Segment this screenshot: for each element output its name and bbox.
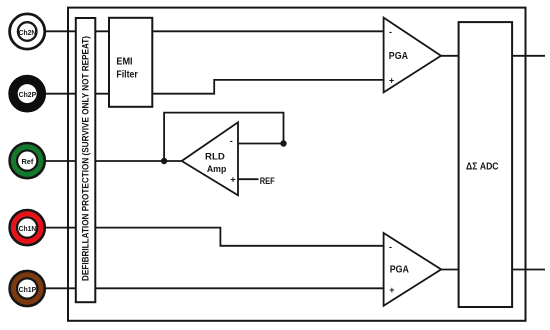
svg-text:Ch1P: Ch1P bbox=[19, 285, 37, 294]
op-amp RLD Amp (points left) bbox=[182, 122, 238, 195]
wire RLD non-inverting input to REF bbox=[238, 178, 259, 180]
svg-text:REF: REF bbox=[260, 176, 276, 186]
node: RLD output junction dot bbox=[161, 158, 167, 164]
wire Ch2N input: connector to EMI filter to PGA1 minus bbox=[44, 30, 384, 32]
svg-text:ΔΣ ADC: ΔΣ ADC bbox=[466, 161, 499, 172]
connector Ch1P (brown) bbox=[10, 271, 45, 306]
svg-text:PGA: PGA bbox=[389, 51, 408, 62]
svg-text:-: - bbox=[230, 136, 233, 146]
svg-text:Ch2P: Ch2P bbox=[19, 90, 37, 99]
svg-text:Filter: Filter bbox=[116, 70, 137, 81]
wire Ref: connector to RLD amp output bbox=[44, 160, 182, 162]
svg-text:EMI: EMI bbox=[116, 57, 132, 68]
wire ADC output top bbox=[512, 55, 545, 57]
svg-text:+: + bbox=[230, 175, 235, 185]
wire ADC output bottom bbox=[512, 269, 545, 271]
wire Ch1N input: connector, step down to PGA2 minus bbox=[44, 228, 384, 246]
connector Ch2N (white) bbox=[10, 14, 45, 49]
defibrillation protection box bbox=[76, 18, 96, 302]
wire Ch1P input: connector to PGA2 plus bbox=[44, 287, 384, 289]
svg-text:Amp: Amp bbox=[207, 164, 227, 175]
svg-text:PGA: PGA bbox=[390, 265, 409, 276]
svg-text:Ref: Ref bbox=[21, 157, 33, 166]
outer border of AFE block bbox=[68, 8, 526, 321]
svg-text:DEFIBRILLATION PROTECTION (SUR: DEFIBRILLATION PROTECTION (SURVIVE ONLY … bbox=[81, 36, 91, 281]
wire RLD feedback loop bbox=[164, 113, 283, 161]
connector Ref (green) bbox=[10, 143, 45, 178]
svg-text:RLD: RLD bbox=[205, 151, 225, 162]
svg-text:+: + bbox=[389, 285, 394, 295]
EMI filter box bbox=[109, 18, 152, 107]
op-amp PGA1 (top) bbox=[384, 18, 441, 93]
wire PGA2 output to ADC bbox=[441, 269, 459, 271]
wire Ch2P input: connector to EMI filter, step up to PGA1 plus bbox=[44, 80, 384, 94]
svg-text:-: - bbox=[389, 242, 392, 252]
svg-text:+: + bbox=[389, 76, 394, 86]
connector Ch1N (red) bbox=[10, 210, 45, 245]
svg-text:Ch1N: Ch1N bbox=[19, 224, 37, 233]
connector Ch2P (black) bbox=[10, 76, 45, 111]
wire RLD inverting input bbox=[238, 143, 284, 145]
delta-sigma ADC box bbox=[459, 22, 512, 307]
wire PGA1 output to ADC bbox=[441, 55, 459, 57]
svg-text:Ch2N: Ch2N bbox=[19, 28, 37, 37]
node: feedback to inverting input dot bbox=[280, 140, 286, 146]
svg-text:-: - bbox=[389, 27, 392, 37]
op-amp PGA2 (bottom) bbox=[384, 233, 442, 306]
